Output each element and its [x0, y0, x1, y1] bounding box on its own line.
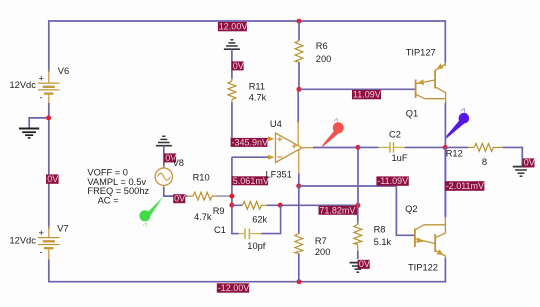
svg-text:C2: C2	[389, 129, 401, 139]
svg-text:12.00V: 12.00V	[219, 22, 248, 32]
svg-text:4.7k: 4.7k	[194, 212, 212, 222]
label 0V (above V8)	[164, 153, 176, 163]
wire V6 to V7	[48, 103, 50, 229]
svg-text:5.1k: 5.1k	[374, 237, 392, 247]
source V8 (AC sine source)	[155, 166, 172, 189]
resistor R6	[295, 21, 303, 89]
capacitor C2	[358, 142, 445, 152]
svg-text:R8: R8	[374, 225, 386, 235]
probe marker (green)	[139, 196, 163, 229]
probe marker (blue) at output node	[446, 105, 469, 138]
wire R12 to ground	[521, 147, 523, 166]
label -11.09V	[376, 176, 408, 186]
transistor Q1 TIP127	[416, 62, 446, 104]
svg-text:0V: 0V	[174, 194, 185, 204]
ground (left)	[19, 129, 39, 138]
svg-text:-2.011mV: -2.011mV	[446, 181, 484, 191]
label 0V (below R8)	[358, 259, 370, 269]
wire ground to V8	[163, 146, 165, 168]
svg-text:R7: R7	[315, 236, 327, 246]
wire minus-input vertical node	[231, 157, 233, 234]
svg-text:11.09V: 11.09V	[353, 90, 381, 100]
ground 0V (inverted, above R11)	[224, 40, 240, 49]
svg-text:-: -	[40, 93, 43, 103]
svg-text:200: 200	[316, 54, 332, 64]
svg-text:TIP127: TIP127	[406, 47, 436, 57]
resistor R8	[354, 205, 362, 259]
junction dot 62k right	[278, 203, 283, 208]
wire V8 node to R10	[163, 195, 188, 197]
svg-text:12Vdc: 12Vdc	[10, 236, 37, 246]
junction dot op-amp V-	[296, 184, 301, 189]
junction dot R10/minus node	[229, 194, 234, 199]
svg-text:8: 8	[482, 157, 487, 167]
junction dot top rail / R6	[297, 19, 302, 24]
svg-text:62k: 62k	[252, 214, 267, 224]
svg-text:V8: V8	[173, 158, 184, 168]
svg-text:LF351: LF351	[266, 170, 292, 180]
junction dot R6 / Q1 base	[297, 87, 302, 92]
junction dot feedback/R8 top	[356, 203, 361, 208]
svg-text:12Vdc: 12Vdc	[10, 80, 37, 90]
svg-text:0V: 0V	[359, 259, 370, 269]
transistor Q2 TIP122	[415, 217, 446, 259]
svg-text:4.7k: 4.7k	[249, 93, 267, 103]
svg-text:R6: R6	[316, 41, 328, 51]
label 5.061mV	[232, 176, 269, 186]
svg-text:+: +	[39, 228, 44, 238]
capacitor C1	[232, 205, 281, 239]
svg-text:V6: V6	[58, 66, 69, 76]
ground 0V (inverted, above V8)	[156, 136, 172, 145]
svg-text:0V: 0V	[524, 158, 535, 168]
svg-text:10pf: 10pf	[247, 241, 266, 251]
svg-text:C1: C1	[214, 225, 226, 235]
label -2.011mV	[445, 181, 485, 191]
svg-text:>: >	[458, 105, 469, 114]
node junction V6/V7/ground	[46, 115, 51, 120]
svg-text:5.061mV: 5.061mV	[233, 176, 269, 186]
svg-text:-: -	[40, 247, 43, 257]
resistor R9 62k (feedback)	[232, 201, 358, 209]
svg-text:Q1: Q1	[406, 108, 418, 118]
junction dot 62k/minus node	[229, 203, 234, 208]
junction dot bottom rail / R7	[297, 279, 302, 284]
wire V- junction to Q2 base drop	[299, 185, 397, 187]
svg-text:-12.00V: -12.00V	[218, 283, 250, 293]
svg-text:0V: 0V	[47, 174, 58, 184]
wire V8 down to node	[163, 187, 165, 197]
wire Q1 base	[299, 88, 416, 90]
label -12.00V (bottom rail)	[217, 283, 249, 293]
label -345.9nV	[231, 137, 268, 147]
svg-text:+: +	[39, 74, 44, 84]
label 0V (V8 output node)	[173, 194, 185, 204]
svg-text:Q2: Q2	[405, 204, 417, 214]
label 12.00V (top rail)	[218, 22, 247, 32]
label 0V (above R11)	[232, 61, 244, 71]
svg-text:TIP122: TIP122	[408, 262, 438, 272]
wire output node down to Q2	[444, 147, 446, 217]
label 71.82mV	[319, 205, 359, 215]
svg-text:AC =: AC =	[98, 196, 119, 206]
junction dot output node	[443, 145, 448, 150]
label 0V (right ground)	[522, 158, 534, 168]
wire bottom -12V rail	[49, 258, 446, 282]
label 0V (battery midpoint)	[46, 174, 59, 184]
battery V7	[38, 226, 60, 260]
probe marker (red) at op-amp output	[322, 115, 344, 147]
svg-text:-345.9nV: -345.9nV	[232, 137, 269, 147]
ground below R8	[350, 263, 367, 273]
svg-text:R10: R10	[193, 173, 210, 183]
svg-text:R11: R11	[249, 82, 265, 92]
resistor R10	[187, 192, 231, 200]
op-amp U4	[268, 90, 314, 187]
wire op-amp output to feedback junction	[313, 147, 359, 149]
svg-text:-11.09V: -11.09V	[377, 176, 408, 186]
svg-text:1uF: 1uF	[392, 153, 408, 163]
wire top +12V rail	[49, 21, 446, 72]
svg-text:0V: 0V	[233, 61, 244, 71]
svg-text:71.82mV: 71.82mV	[319, 205, 355, 215]
svg-text:R12: R12	[446, 148, 463, 158]
svg-text:200: 200	[315, 247, 331, 257]
junction dot C2 left	[356, 145, 361, 150]
resistor R11	[228, 78, 236, 104]
svg-text:U4: U4	[270, 119, 282, 129]
wire Q2 base drop	[396, 186, 415, 235]
wire ground to R11	[231, 49, 233, 79]
wire R11 to op-amp plus input	[232, 103, 270, 139]
wire Q1 collector to output node	[444, 103, 446, 148]
resistor R7	[295, 186, 303, 282]
svg-text:V7: V7	[57, 224, 68, 234]
wire ground stub left	[29, 118, 49, 128]
label 11.09V	[352, 90, 381, 100]
svg-text:R9: R9	[213, 206, 225, 216]
wire minus node to op-amp minus input	[232, 156, 270, 158]
resistor R12	[445, 144, 522, 152]
ground right (after R12)	[513, 167, 530, 177]
battery V6	[38, 70, 60, 104]
wire feedback vertical	[357, 147, 359, 205]
